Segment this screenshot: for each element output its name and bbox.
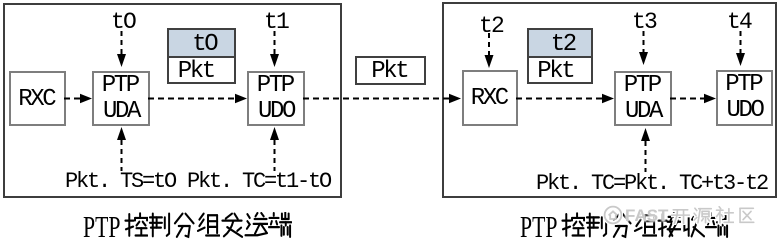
hanzi 控	[561, 212, 585, 239]
hanzi 组	[633, 212, 657, 239]
packet box Pkt (in flight)	[355, 56, 426, 85]
hanzi 发	[220, 212, 244, 239]
block PTP UDO (sender)	[247, 71, 305, 126]
caption text PTP (receiver, latin part)	[520, 216, 557, 237]
arrow: Pkt.TC equation up into PTP UDA (receiver)	[641, 128, 650, 172]
label t4	[727, 9, 751, 35]
hanzi 分	[172, 212, 196, 239]
hanzi 制	[585, 212, 609, 239]
hanzi 分	[609, 212, 633, 239]
watermark hanzi 源	[693, 206, 712, 225]
caption: PTP control packet receiver (Chinese)	[561, 212, 729, 239]
block RXC (receiver)	[462, 70, 518, 126]
watermark hanzi 社	[715, 206, 734, 225]
hanzi 控	[124, 212, 148, 239]
hanzi 组	[196, 212, 220, 239]
arrow: t0 timestamp into PTP UDA (sender)	[117, 31, 126, 67]
watermark hanzi 区	[737, 206, 756, 225]
watermark logo	[603, 205, 623, 225]
box: PTP receiver outer frame	[442, 2, 777, 198]
packet stack t0/Pkt (sender)	[167, 28, 236, 84]
equation Pkt.TC=t1-t0 (sender)	[187, 169, 330, 194]
block PTP UDA (sender)	[92, 71, 150, 126]
hanzi 制	[148, 212, 172, 239]
watermark: FAST open source community logo and text	[603, 205, 759, 225]
block PTP UDA (receiver)	[614, 71, 672, 126]
arrow: Pkt.TS equation up into PTP UDA (sender)	[117, 127, 126, 171]
hanzi 收	[681, 212, 705, 239]
arrow: Pkt.TC equation up into PTP UDO (sender)	[270, 127, 279, 171]
hanzi 送	[244, 212, 268, 239]
wire: RXC to PTP UDA (receiver)	[516, 94, 614, 103]
caption: PTP control packet sender (Chinese)	[124, 212, 292, 239]
hanzi 接	[657, 212, 681, 239]
wire: PTP UDA to PTP UDO (sender)	[148, 94, 247, 103]
box: PTP sender outer frame	[3, 3, 342, 198]
equation Pkt.TC=Pkt.TC+t3-t2 (receiver)	[536, 171, 767, 196]
label t3	[632, 9, 656, 35]
block PTP UDO (receiver)	[716, 70, 773, 126]
label t2	[479, 13, 503, 39]
wire: PTP UDO (sender) to RXC (receiver)	[303, 94, 461, 103]
watermark hanzi 开	[671, 206, 690, 225]
arrow: t3 timestamp into PTP UDA (receiver)	[639, 31, 648, 65]
label t0	[111, 9, 135, 35]
equation Pkt.TS=t0 (sender)	[65, 169, 175, 194]
watermark text FAST	[625, 207, 668, 224]
packet stack t2/Pkt (receiver)	[527, 28, 593, 84]
arrow: t4 timestamp into PTP UDO (receiver)	[736, 31, 745, 66]
arrow: t2 timestamp into RXC (receiver)	[485, 33, 494, 68]
wire: PTP UDA to PTP UDO (receiver)	[670, 94, 716, 103]
hanzi 端	[268, 212, 292, 239]
hanzi 端	[705, 212, 729, 239]
label t1	[264, 9, 288, 35]
wire: RXC to PTP UDA (sender)	[64, 94, 92, 103]
block RXC (sender)	[9, 71, 66, 126]
arrow: t1 timestamp into PTP UDO (sender)	[270, 31, 279, 67]
caption text PTP (sender, latin part)	[83, 216, 120, 237]
